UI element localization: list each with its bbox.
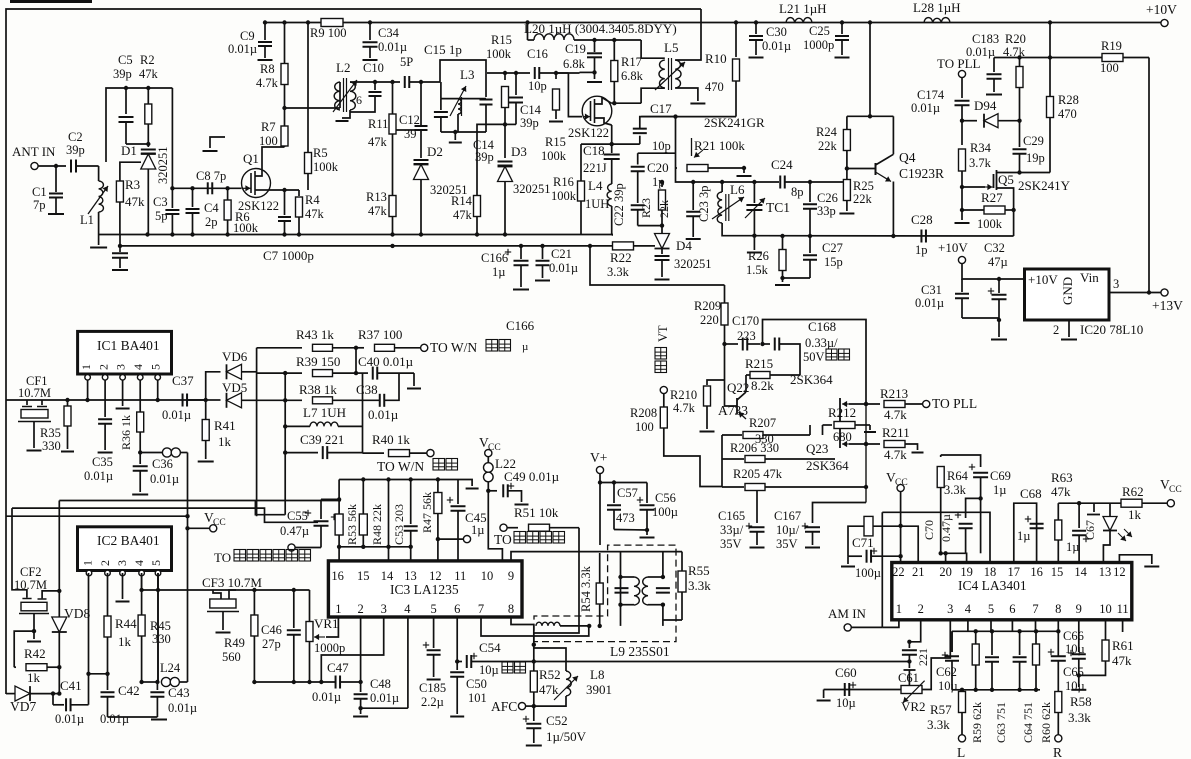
svg-text:R210: R210 [670,388,697,402]
svg-text:R26: R26 [748,249,769,263]
svg-text:L21 1µH: L21 1µH [779,1,827,16]
svg-text:R11: R11 [368,117,388,131]
svg-text:C7 1000p: C7 1000p [263,248,314,263]
svg-text:R21 100k: R21 100k [694,138,745,153]
svg-text:15: 15 [357,569,370,583]
svg-text:35V: 35V [776,537,798,551]
led indicator [1103,503,1132,562]
svg-text:C20: C20 [647,160,669,175]
wire R19 feed line [994,55,1102,59]
svg-text:C60: C60 [835,665,857,680]
svg-text:18: 18 [984,565,997,579]
svg-text:L8: L8 [590,667,604,682]
svg-text:C54: C54 [479,640,501,655]
terminal ANT IN [12,144,56,170]
svg-text:+10V: +10V [1028,272,1058,287]
resistor R7 [259,120,288,148]
svg-text:+10V: +10V [938,240,968,255]
svg-text:C38: C38 [356,382,378,397]
svg-text:R23: R23 [639,198,653,218]
svg-text:C5: C5 [118,53,133,67]
crystal CF2 10.7M [12,508,62,633]
svg-text:R13: R13 [366,190,387,204]
svg-text:0.01µ: 0.01µ [966,45,995,59]
resistor R26 [746,236,786,278]
svg-text:50V: 50V [803,350,825,364]
resistor R49 560 [222,590,258,684]
wire loop right side [171,88,173,188]
svg-text:9: 9 [508,569,514,583]
resistor R37 100 [356,327,528,355]
capacitor C65 10u [1048,631,1085,693]
svg-text:C35: C35 [92,455,113,469]
wire VD7 row to C41 [51,691,64,704]
capacitor C28 1p [911,212,933,257]
svg-text:C18: C18 [583,143,605,158]
svg-text:47k: 47k [368,135,388,149]
svg-text:GND: GND [1060,277,1075,305]
capacitor C170 223 [725,314,765,351]
svg-text:TO W/N: TO W/N [430,340,477,355]
svg-text:C68: C68 [1020,486,1042,501]
label C22 39p [612,183,626,226]
ground IC1 pin3 [116,380,130,409]
svg-text:R206 330: R206 330 [730,441,779,455]
wire V+ node [598,474,647,545]
terminal VT voltage [655,325,670,394]
svg-text:C16: C16 [527,47,548,61]
transistor Q22 A733 [718,344,774,419]
svg-text:47k: 47k [125,194,145,209]
svg-text:C42: C42 [118,683,140,698]
resistor R209 220 [694,285,728,346]
resistor R42 1k [14,646,61,685]
svg-text:C67: C67 [1083,520,1097,540]
resistor R51 10k [494,505,579,547]
svg-text:R8: R8 [260,62,275,76]
wire rail B [12,508,318,522]
wire VD riser [284,373,286,515]
svg-text:R47 56k: R47 56k [420,492,434,533]
svg-text:10µ: 10µ [836,696,856,710]
svg-text:15p: 15p [824,255,843,269]
label R206 [730,441,779,455]
svg-text:R57: R57 [930,702,952,717]
svg-text:Q23: Q23 [806,441,828,456]
svg-text:5: 5 [988,602,994,616]
svg-text:IC3 LA1235: IC3 LA1235 [390,582,459,597]
svg-text:L2: L2 [336,60,350,75]
wire IC3 top rail y479 [339,477,479,488]
svg-text:C48: C48 [370,677,391,691]
svg-text:R19: R19 [1101,39,1122,53]
capacitor C47 [312,660,349,704]
capacitor C56 100u [614,483,678,538]
svg-text:R15: R15 [491,33,512,47]
inductor L2 transformer [333,60,362,121]
svg-text:C63 751: C63 751 [994,702,1008,743]
wire Q5 drain row [996,170,1050,174]
svg-text:1: 1 [335,602,341,616]
capacitor C9 [228,23,273,61]
label 2SK364 upper [790,372,833,387]
wire L2 sec top to C10 [350,80,377,84]
diode D3 varactor 320251 [498,144,551,235]
svg-text:6: 6 [356,93,362,107]
svg-text:+13V: +13V [1152,298,1183,313]
wire C70 link [966,498,981,518]
resistor R53 56k [335,504,359,545]
svg-text:ANT IN: ANT IN [12,144,56,159]
resistor R27 100k [960,187,1016,231]
svg-text:TC1: TC1 [766,200,790,215]
svg-text:C27: C27 [822,241,843,255]
svg-text:10.7M: 10.7M [18,386,51,400]
svg-text:R208: R208 [630,406,657,420]
svg-text:C10: C10 [363,61,384,75]
ic IC20 78L10 box [1025,269,1144,337]
wire R8-R7 node to L2 [282,106,340,110]
svg-text:13: 13 [404,569,417,583]
resistor R55 3.3k [663,552,711,620]
capacitor C32 47u [984,241,1008,322]
svg-text:C15 1p: C15 1p [424,42,462,57]
svg-text:1000p: 1000p [803,38,834,52]
capacitor C24 8p [771,157,847,199]
svg-text:R48 22k: R48 22k [370,504,384,545]
diode D94 [962,98,1020,128]
svg-text:35V: 35V [720,537,742,551]
capacitor C18 [583,143,620,184]
resistor R3 [116,177,145,235]
capacitor C38 [368,373,399,422]
svg-text:0.01µ: 0.01µ [762,39,791,53]
svg-text:C66: C66 [1063,629,1084,643]
svg-text:3: 3 [947,602,953,616]
svg-text:100k: 100k [486,47,512,61]
capacitor C30 [749,23,792,58]
wire L9 bottom node [532,626,536,706]
svg-text:TO: TO [214,550,231,565]
capacitor C22 [631,205,665,228]
svg-text:39p: 39p [66,143,85,157]
wire rail left leg [337,480,341,561]
capacitor C68 1u [1014,486,1044,563]
label C15 1p [424,42,462,57]
capacitor C15 tank right [480,100,493,133]
wire Q1 gate line [170,186,241,190]
wire Q22 emitter col [721,435,723,487]
svg-text:C65: C65 [1063,665,1084,679]
svg-text:6: 6 [1009,602,1015,616]
wire R53 bottom rail [339,546,411,548]
resistor R62 1k [1121,477,1182,522]
inductor L3 [441,67,486,132]
ground Q5 source [955,210,970,223]
svg-text:CC: CC [895,478,908,488]
svg-text:L6: L6 [730,182,745,197]
svg-text:12: 12 [1113,565,1126,579]
wire osc feedback riser [590,246,725,285]
svg-text:R60 62k: R60 62k [1039,702,1053,743]
wire gate bias R16 [580,144,582,181]
svg-text:100k: 100k [541,149,567,163]
svg-text:2SK364: 2SK364 [790,372,833,387]
label L20 [524,21,677,36]
capacitor C12 39 [399,80,428,141]
capacitor C174 [911,78,970,123]
transistor Q23 2SK364 [806,398,849,473]
capacitor C34 [363,23,408,61]
svg-text:C170: C170 [732,314,759,328]
svg-text:2: 2 [918,602,924,616]
resistor R9 [310,19,346,41]
svg-text:5: 5 [430,602,436,616]
svg-text:VT: VT [656,325,670,342]
svg-text:R205 47k: R205 47k [733,467,783,481]
ground IC2 pin3 [116,573,130,602]
svg-text:R38 1k: R38 1k [299,382,337,397]
svg-text:C14: C14 [520,103,542,117]
ic IC1 pins [85,375,161,381]
svg-text:R37 100: R37 100 [358,327,402,342]
svg-text:AFC: AFC [491,699,517,714]
svg-text:R44: R44 [115,616,137,631]
wire Vcc IC2 terminal [188,510,226,532]
svg-text:VD8: VD8 [64,606,90,621]
capacitor C168 second [763,338,801,376]
wire outer frame left/top [6,2,701,695]
svg-text:R209: R209 [694,299,721,313]
svg-text:10µ: 10µ [938,679,958,693]
svg-text:R20: R20 [1005,32,1026,46]
svg-text:R52: R52 [539,667,561,682]
svg-text:R: R [1053,745,1062,759]
svg-text:100k: 100k [551,189,577,203]
svg-text:8: 8 [508,602,514,616]
resistor R15 third [549,71,563,122]
svg-text:C28: C28 [911,212,933,227]
svg-text:1: 1 [81,560,95,566]
trimmer TC1 [745,182,790,238]
svg-text:220: 220 [700,313,719,327]
svg-text:R215: R215 [745,356,773,371]
resistor R60 62k [1033,631,1054,743]
pot VR1 1000p [306,590,345,684]
capacitor C45 1u [438,480,487,561]
svg-text:R51 10k: R51 10k [514,505,559,520]
svg-text:1.5k: 1.5k [746,263,769,277]
svg-text:22k: 22k [657,200,671,218]
wire C47 row y682 [254,680,362,684]
resistor R208 100 [630,394,722,487]
svg-text:3: 3 [381,602,387,616]
svg-text:7p: 7p [33,198,46,212]
wire L3 tank bottom [441,130,495,164]
resistor R39 150 [257,348,359,377]
svg-text:2: 2 [1053,323,1059,337]
svg-text:1: 1 [79,364,93,370]
label R15b 100k [541,135,567,163]
inductor L1 [80,166,108,235]
svg-text:0.01µ: 0.01µ [100,712,129,726]
wire main +10V bus [263,20,1164,24]
svg-text:C40 0.01µ: C40 0.01µ [358,354,414,369]
svg-text:11: 11 [1117,602,1129,616]
inductor L8 3901 [534,648,612,706]
svg-text:1µ: 1µ [492,265,505,279]
svg-text:C21: C21 [551,247,572,261]
svg-text:C12: C12 [399,113,420,127]
wire R62 rail [1079,503,1121,514]
svg-text:Q4: Q4 [899,150,916,165]
capacitor C53 203 [386,480,406,561]
svg-text:0.01µ: 0.01µ [368,407,399,422]
wire pin5 fix [157,573,159,682]
svg-text:5: 5 [149,364,163,370]
svg-text:CC: CC [213,518,226,528]
svg-text:0.01µ: 0.01µ [915,296,944,310]
wire Q3 source node [581,125,640,146]
wire pin9 row [511,552,682,561]
capacitor C19 [563,40,602,82]
svg-text:19: 19 [960,565,973,579]
svg-text:1k: 1k [218,434,232,449]
svg-text:C64 751: C64 751 [1021,702,1035,743]
capacitor C60 10u [817,665,857,710]
svg-text:R7: R7 [261,120,276,134]
svg-text:C46: C46 [261,623,282,637]
svg-text:10µ: 10µ [1065,679,1085,693]
svg-text:2: 2 [357,602,363,616]
resistor R41 1k [198,400,236,462]
svg-text:D1: D1 [121,143,137,158]
wire Q4 collector riser [868,23,872,119]
diode D4 varactor 320251 [634,226,712,280]
svg-text:1µ/50V: 1µ/50V [546,729,587,744]
svg-text:CF2: CF2 [20,565,42,579]
svg-text:C30: C30 [766,25,787,39]
capacitor C40 [356,354,421,389]
resistor R40 1k [363,432,458,474]
capacitor C10 [350,61,384,112]
svg-text:27p: 27p [262,637,281,651]
wire long line to AM area [534,661,910,663]
svg-text:Vin: Vin [1080,270,1099,285]
svg-text:1µ: 1µ [471,523,484,537]
wire C42 gnd rail [108,717,168,720]
terminal V+ [590,450,607,474]
svg-text:R53 56k: R53 56k [345,504,359,545]
svg-text:3: 3 [115,560,129,566]
svg-text:15: 15 [1051,565,1064,579]
resistor R2 [139,53,159,147]
transistor Q4 C1923R [845,150,944,236]
inductor L5 transformer [641,9,705,104]
svg-text:L24: L24 [160,661,181,675]
inductor L22 [484,456,516,493]
svg-text:R63: R63 [1051,470,1073,485]
resistor R34 [959,121,992,190]
svg-text:R41: R41 [214,418,236,433]
capacitor C35 [84,380,113,483]
svg-text:1µ: 1µ [1017,529,1030,543]
svg-text:CF3 10.7M: CF3 10.7M [202,575,262,590]
label R63 47k [1051,470,1073,499]
svg-text:16: 16 [331,569,344,583]
svg-text:TO W/N: TO W/N [377,459,424,474]
wire riser 187 full [185,453,189,683]
wire rail C [6,515,188,517]
svg-text:C53 203: C53 203 [392,504,406,545]
wire Vcc col down [488,491,502,561]
wire Q4 top link [847,116,894,154]
svg-text:19p: 19p [1026,151,1045,165]
capacitor C55 0.47u [280,499,339,547]
capacitor C43 [150,682,197,717]
svg-text:7: 7 [1032,602,1038,616]
diode VD5 [206,380,288,408]
svg-text:2: 2 [97,364,111,370]
svg-text:C22 39p: C22 39p [612,183,626,226]
resistor R52 47k [530,667,560,697]
svg-text:R55: R55 [688,563,710,578]
svg-text:A733: A733 [718,403,748,418]
svg-text:2.2µ: 2.2µ [421,695,444,709]
svg-text:C2: C2 [68,130,83,144]
inductor L28 1uH [913,0,961,23]
resistor R23 [639,180,671,226]
svg-text:473: 473 [616,511,635,525]
svg-text:C4: C4 [204,201,219,215]
resistor R17 [611,40,644,105]
terminal AM IN [828,606,867,631]
svg-text:VR1: VR1 [314,616,339,631]
wire C14b link [503,122,516,126]
svg-text:3.3k: 3.3k [1068,710,1091,725]
svg-text:C183: C183 [972,32,999,46]
svg-text:R40 1k: R40 1k [372,432,410,447]
svg-text:R9 100: R9 100 [310,26,346,40]
svg-text:470: 470 [1058,107,1077,121]
svg-text:0.01µ: 0.01µ [228,42,257,56]
svg-text:0.01µ: 0.01µ [370,691,399,705]
wire rail A to VD riser [284,514,285,516]
svg-text:13: 13 [1099,565,1112,579]
svg-text:6.8k: 6.8k [563,57,586,71]
wire R64 rail [941,455,981,467]
svg-text:10p: 10p [528,79,547,93]
wire osc bus2 to R22 [520,245,522,247]
label C166 toWN [506,318,535,333]
capacitor C1 [32,166,64,214]
resistor R24 [816,116,850,180]
wire D3 top to R14 [477,124,505,196]
wire tank line y182 [676,168,780,184]
svg-text:C166: C166 [481,251,508,265]
diode D2 varactor 320251 [414,130,468,235]
svg-text:47k: 47k [453,208,473,222]
capacitor C66 [1068,619,1087,690]
svg-text:L4: L4 [588,178,603,193]
ic IC3 LA1235 box [328,561,522,617]
svg-text:5: 5 [149,560,163,566]
svg-text:223: 223 [737,329,756,343]
svg-text:R207: R207 [749,416,776,430]
svg-text:L3: L3 [460,67,474,82]
ground TC1 bottom [747,236,762,253]
svg-text:C25: C25 [809,24,830,38]
